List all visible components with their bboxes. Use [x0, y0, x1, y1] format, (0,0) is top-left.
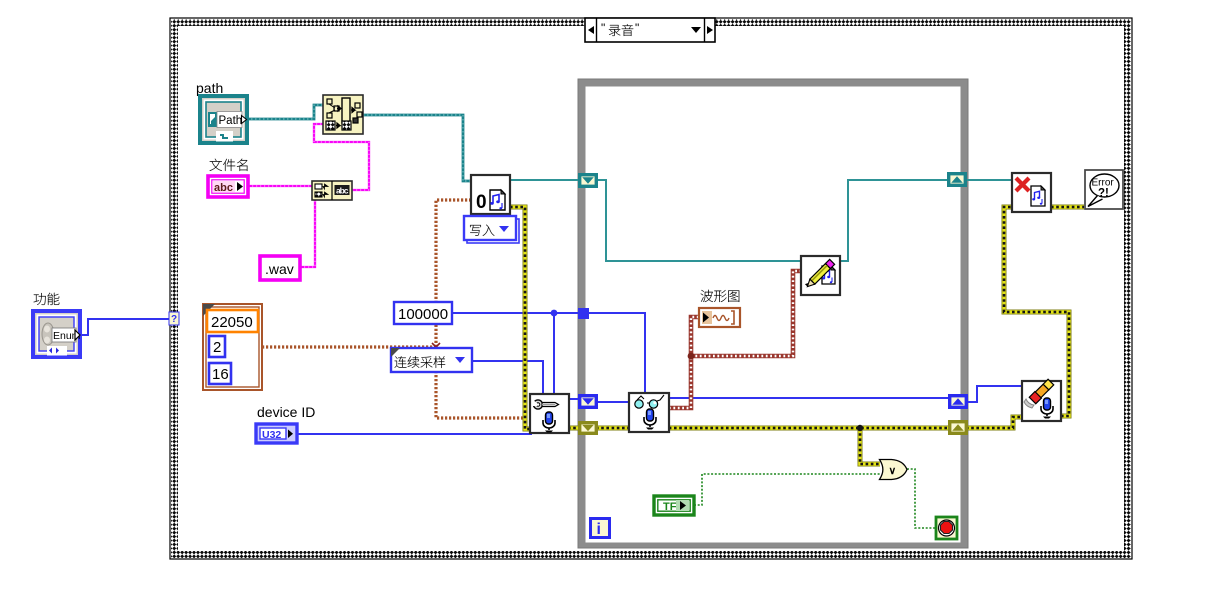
svg-text:path: path [196, 80, 223, 96]
wire 100000 to loop tunnel (numeric, blue) [452, 312, 589, 314]
junction dot on error wire [857, 425, 863, 431]
case structure border [170, 18, 1132, 559]
wire sample info cluster horizontal (cluster, brown dotted) [262, 345, 436, 348]
wire TF constant to Or gate (boolean, green dotted) [694, 474, 880, 505]
wire tunnel to Sound Input Read samples (numeric, blue) [589, 313, 645, 393]
wire right olive SR to Sound Input Clear (error cluster, yellow/black) [966, 417, 1022, 428]
svg-text:2: 2 [213, 339, 221, 356]
Sound Input Read VI [629, 393, 669, 432]
wire blue SR to Sound Input Read (numeric, blue) [596, 401, 629, 403]
path control [200, 96, 247, 143]
left shift register (task id, blue) [580, 396, 597, 408]
Sound File Write VI (pencil) [801, 256, 840, 295]
loop tunnel (number of samples) [578, 308, 589, 319]
right shift register (error, olive) [950, 422, 967, 434]
label 功能 [34, 293, 46, 305]
wire right blue SR to Sound Input Clear (numeric, blue) [966, 386, 1022, 402]
wire filename to Concatenate (string, magenta) [248, 185, 312, 187]
case selector tunnel ? [169, 312, 179, 325]
wire Sound File Close error to error handler (error cluster, yellow/black) [1051, 205, 1085, 210]
wire .wav to Concatenate (string, magenta) [300, 198, 315, 267]
wire Or gate to loop stop terminal (boolean, green dotted) [907, 469, 936, 528]
label 波形图 [701, 290, 713, 302]
Sound Input Configure VI [530, 394, 569, 433]
case selector label "录音" [585, 18, 715, 42]
junction on cluster wire [432, 343, 440, 351]
wire ring continuous-sampling to SI Configure (numeric, blue) [472, 361, 543, 394]
wire Sound Input Clear error to Sound File Close (error cluster, yellow/black) [1004, 207, 1069, 416]
svg-text:.wav: .wav [265, 261, 294, 277]
left shift register (error, olive) [580, 423, 597, 434]
wire Sound Input Read task id to right blue SR (numeric, blue) [669, 397, 950, 399]
wire path control to Build Path (path, teal) [247, 105, 323, 119]
svg-text:": " [635, 21, 639, 35]
wire left SR to Sound File Write (sound file refnum, teal) [596, 180, 801, 261]
while loop border [578, 79, 968, 548]
wire SI Configure error to olive SR (error cluster, yellow/black) [568, 426, 580, 431]
wire right SR to Sound File Close (sound file refnum, teal) [966, 179, 1012, 181]
svg-text:abc: abc [214, 182, 233, 194]
junction dot on waveform wire [688, 353, 695, 360]
wire cluster branch down to SI Configure (cluster, brown dotted) [436, 347, 530, 418]
right shift register (refnum, teal) [949, 174, 966, 186]
wire junction down to SI Configure (numeric, blue) [553, 313, 555, 394]
Simple Error Handler VI [1085, 170, 1123, 209]
cluster constant (22050, 2, 16) [203, 304, 262, 390]
Sound File Close VI [1012, 173, 1051, 212]
svg-text:100000: 100000 [398, 306, 448, 323]
svg-text:22050: 22050 [211, 314, 253, 331]
wire error branch to Or gate (error cluster, yellow/black) [860, 428, 880, 464]
svg-text:TF: TF [663, 501, 677, 513]
waveform graph terminal [699, 308, 740, 327]
label 文件名 [210, 159, 222, 171]
Or function [880, 460, 908, 480]
wire Sound Input Read data to waveform graph (waveform array, red striped) [669, 317, 699, 408]
string control 文件名 [208, 176, 248, 197]
svg-text:∨: ∨ [889, 465, 897, 477]
svg-text:U32: U32 [262, 429, 281, 441]
numeric constant 100000 [394, 302, 452, 324]
svg-text:device ID: device ID [257, 404, 315, 420]
wire Concatenate to Build Path (string, magenta) [314, 124, 369, 190]
boolean constant TF [654, 496, 694, 515]
svg-text:0: 0 [476, 192, 487, 213]
loop condition terminal (stop) [936, 517, 957, 539]
wire Sound Open refnum to left shift register (sound file refnum, teal) [510, 179, 580, 181]
wire cluster branch up to Sound File Open (cluster, brown dotted) [436, 200, 471, 347]
svg-text:?: ? [171, 314, 177, 325]
wire data branch to Sound File Write (waveform array, red striped) [691, 271, 801, 356]
svg-text:16: 16 [212, 366, 229, 383]
svg-text:?!: ?! [1098, 188, 1109, 200]
enum control 功能 [33, 311, 81, 357]
left shift register (refnum, teal) [580, 175, 597, 187]
Concatenate Strings function [312, 181, 352, 200]
wire Sound File Write refnum to right SR (sound file refnum, teal) [840, 180, 949, 261]
junction dot on 100000 wire [551, 310, 558, 317]
svg-text:Path: Path [219, 115, 243, 127]
wire device ID to SI Configure (numeric, blue) [297, 433, 532, 435]
right shift register (task id, blue) [950, 396, 967, 408]
numeric control device ID (U32) [256, 424, 297, 443]
wire olive SR error through Sound Input Read to right SR (error cluster, yellow/black) [596, 426, 950, 431]
wire Sound Open error to SI Configure (error cluster, yellow/black) [510, 207, 531, 429]
iteration terminal i [591, 519, 610, 539]
svg-text:abc: abc [336, 186, 349, 196]
wire SI Configure task id to blue SR (numeric, blue) [569, 398, 580, 400]
Build Path function [323, 95, 363, 134]
string constant .wav [260, 256, 300, 280]
wire Build Path to Sound File Open (path, teal) [363, 115, 471, 181]
wire enum to case selector tunnel (numeric, blue) [80, 319, 169, 335]
Sound Input Clear VI (eraser) [1022, 379, 1061, 421]
Sound File Open VI [471, 175, 510, 214]
ring constant 连续采样 [391, 348, 472, 372]
svg-text:": " [601, 21, 605, 35]
ring constant 写入 (write mode) [464, 216, 519, 243]
svg-text:i: i [597, 521, 601, 538]
